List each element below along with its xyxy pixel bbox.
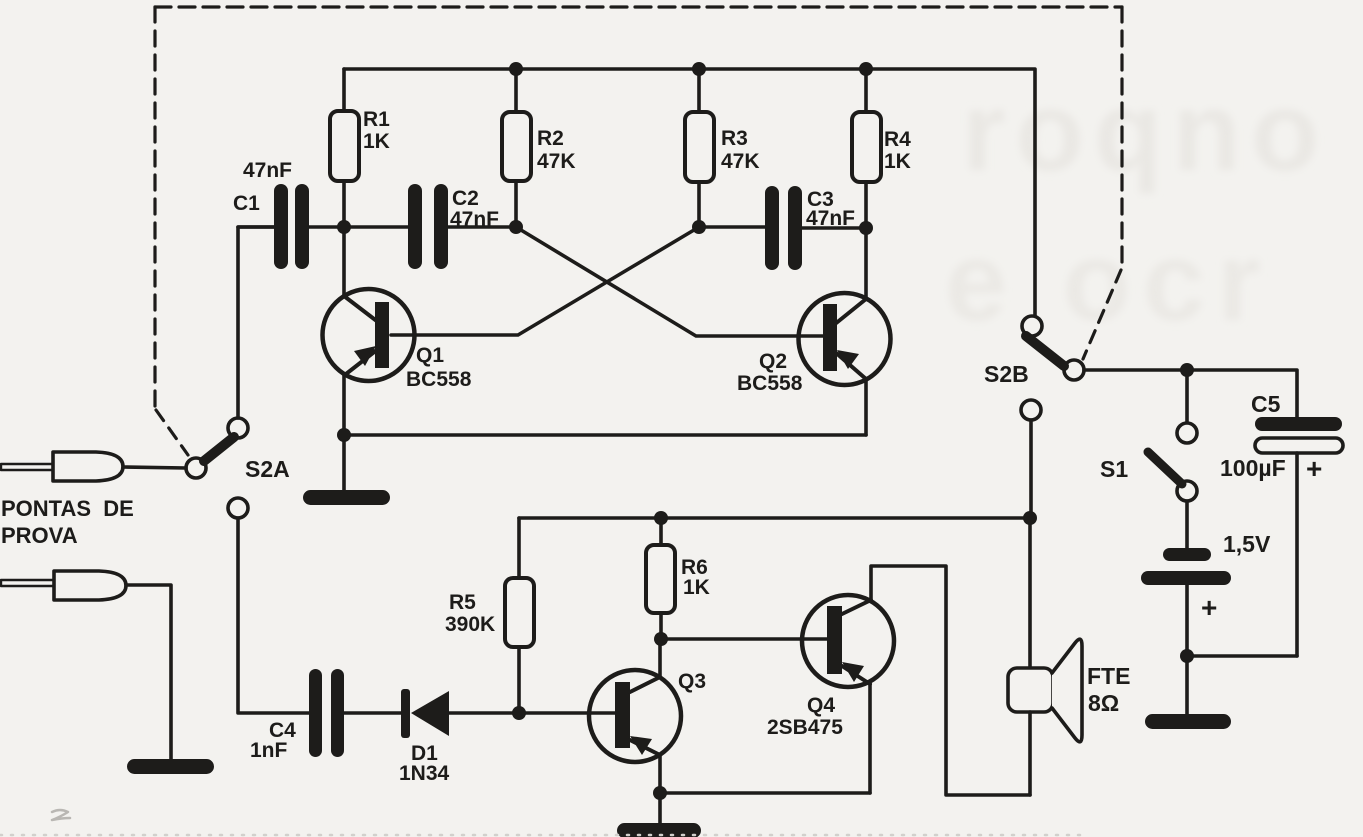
node R6/Q3/Q4 <box>654 632 668 646</box>
svg-text:1K: 1K <box>363 130 390 153</box>
wire Q4 base <box>661 637 827 641</box>
dashed coupling border top <box>155 5 1122 8</box>
node S1/C5 <box>1180 363 1194 377</box>
svg-text:47K: 47K <box>721 150 760 173</box>
bottom scan speckle band <box>0 834 1080 837</box>
switch S2B <box>984 316 1084 420</box>
svg-text:C2: C2 <box>452 187 479 210</box>
dashed coupling border right <box>1120 7 1123 268</box>
svg-text:R3: R3 <box>721 127 748 150</box>
wire S2B pole to C5/S1 <box>1084 370 1297 417</box>
wire Q3 emitter to ground <box>658 793 662 826</box>
wire top supply rail <box>344 69 1035 316</box>
svg-text:100µF: 100µF <box>1220 455 1286 481</box>
wire battery to ground <box>1185 656 1189 716</box>
svg-text:S1: S1 <box>1100 456 1128 482</box>
switch S2A <box>186 418 290 518</box>
wire S2A top throw to C1 <box>238 227 274 418</box>
node R1/C1/C2 <box>337 220 351 234</box>
wire cross-coupling Q1 base to R3/C3 node <box>391 227 699 335</box>
svg-text:PONTAS DE: PONTAS DE <box>1 496 134 521</box>
node D1/R5/Q3 <box>512 706 526 720</box>
switch S1 <box>1100 370 1197 501</box>
wire S2A bottom throw to C4 <box>238 518 309 713</box>
wire cross-coupling Q2 base to R2/C2 node <box>516 227 823 336</box>
ground Q1 <box>303 490 390 505</box>
svg-text:2SB475: 2SB475 <box>767 716 843 739</box>
svg-text:R2: R2 <box>537 127 564 150</box>
svg-text:roqno: roqno <box>962 69 1329 194</box>
node R2/C2 <box>509 220 523 234</box>
capacitor C2 <box>408 184 516 269</box>
transistor Q4 2SB475 <box>767 595 894 739</box>
svg-text:47K: 47K <box>537 150 576 173</box>
svg-text:R1: R1 <box>363 108 390 131</box>
node R3/C3 <box>692 220 706 234</box>
svg-text:e ocr: e ocr <box>945 219 1273 344</box>
label PONTAS DE PROVA <box>1 496 134 548</box>
transistor Q1 BC558 <box>323 227 472 435</box>
svg-text:1K: 1K <box>683 576 710 599</box>
node mid rail R6 <box>654 511 668 525</box>
svg-text:C5: C5 <box>1251 391 1281 417</box>
svg-text:Q1: Q1 <box>416 344 444 367</box>
wire C1 node to C2 <box>344 225 408 229</box>
wire C5 bottom to battery node <box>1187 654 1297 658</box>
wire S2B lower throw to mid rail <box>1029 420 1033 518</box>
svg-text:390K: 390K <box>445 613 495 636</box>
svg-text:1N34: 1N34 <box>399 762 450 785</box>
svg-text:1K: 1K <box>884 150 911 173</box>
svg-text:BC558: BC558 <box>737 372 803 395</box>
resistor R2 <box>502 69 576 227</box>
node Q1 emitter <box>337 428 351 442</box>
node top rail R2 <box>509 62 523 76</box>
node R4/C3 <box>859 221 873 235</box>
svg-text:Q3: Q3 <box>678 670 706 693</box>
scan mark bottom-left <box>52 810 70 820</box>
node mid rail speaker <box>1023 511 1037 525</box>
transistor Q2 BC558 <box>737 228 891 435</box>
svg-text:47nF: 47nF <box>243 159 292 182</box>
svg-text:Q2: Q2 <box>759 350 787 373</box>
wire mid rail <box>519 516 1030 520</box>
speaker FTE 8ohm <box>1008 518 1130 795</box>
capacitor C4 <box>250 669 402 762</box>
svg-text:+: + <box>1201 592 1217 623</box>
svg-text:BC558: BC558 <box>406 368 472 391</box>
capacitor C5 100uF <box>1220 391 1343 656</box>
svg-text:R5: R5 <box>449 591 476 614</box>
resistor R5 <box>445 518 534 713</box>
wire Q4 emitter <box>868 684 872 793</box>
wire Q3 base <box>519 711 615 715</box>
dashed link to S2B <box>1083 270 1121 359</box>
capacitor C3 <box>699 186 866 270</box>
capacitor C1 <box>233 159 344 269</box>
resistor R1 <box>330 69 390 227</box>
svg-text:R4: R4 <box>884 128 911 151</box>
probe 2 <box>1 571 171 760</box>
transistor Q3 <box>589 639 706 793</box>
resistor R6 <box>646 518 710 639</box>
svg-text:S2B: S2B <box>984 361 1029 387</box>
node top rail R3 <box>692 62 706 76</box>
svg-text:1nF: 1nF <box>250 739 288 762</box>
battery B1 1,5V <box>1141 501 1271 656</box>
node Q3 emitter <box>653 786 667 800</box>
resistor R4 <box>852 69 911 228</box>
wire Q3/Q4 emitters <box>660 791 870 795</box>
wire Q4 collector to speaker <box>871 566 1030 795</box>
svg-text:Q4: Q4 <box>807 694 835 717</box>
ground probe 2 <box>127 759 214 774</box>
dashed coupling border left <box>153 7 156 408</box>
node top rail R4 <box>859 62 873 76</box>
dashed link to S2A <box>156 410 188 455</box>
svg-text:+: + <box>1306 453 1322 484</box>
svg-text:8Ω: 8Ω <box>1088 690 1119 716</box>
svg-text:47nF: 47nF <box>450 208 499 231</box>
svg-text:S2A: S2A <box>245 456 290 482</box>
ground battery <box>1145 714 1231 729</box>
diode D1 1N34 <box>399 689 519 785</box>
svg-text:C1: C1 <box>233 192 260 215</box>
wire Q1 emitter to ground <box>342 435 346 492</box>
ground Q3 <box>617 823 701 837</box>
svg-text:PROVA: PROVA <box>1 523 78 548</box>
wire emitters rail <box>344 433 866 437</box>
svg-text:1,5V: 1,5V <box>1223 531 1271 557</box>
resistor R3 <box>685 69 760 227</box>
svg-text:47nF: 47nF <box>806 207 855 230</box>
probe 1 <box>1 452 186 481</box>
svg-text:FTE: FTE <box>1087 663 1130 689</box>
node battery/C5/ground <box>1180 649 1194 663</box>
